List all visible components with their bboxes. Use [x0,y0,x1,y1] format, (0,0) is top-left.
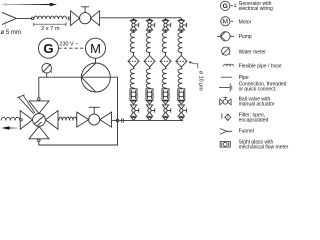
connection, threaded (manifold) [122,119,124,123]
ball valve (branch top) with manual actuator [178,20,186,30]
connection, threaded (top of branch valve) [131,18,135,20]
wire branch drop at x=133.5 [133,18,135,21]
svg-text:230 V ~: 230 V ~ [60,41,79,47]
flexible hose (lower) [130,69,134,89]
manifold (bottom collection pipe) [118,120,184,122]
sight glass with mechanical flow meter [146,89,153,100]
flexible hose (upper) [146,32,150,52]
ball valve (branch bottom) with manual actuator [162,105,170,116]
funnel (drain) [179,101,184,104]
wire [149,53,151,56]
wire [180,116,182,117]
generator G with electrical wiring [39,38,59,58]
funnel (drain) [147,101,152,104]
wire branch drop at x=149.5 [149,18,151,21]
node: 4-way valve top port [38,98,41,101]
connection, threaded (below branch valve) [147,30,151,32]
wire [180,67,182,69]
leader (dotted) for nozzle diameter [4,21,6,28]
svg-text:M: M [223,19,228,26]
ball valve (branch top) with manual actuator [130,20,138,30]
svg-text:Water meter: Water meter [239,49,267,55]
flexible hose (upper) [178,32,182,52]
flow direction arrow (top) [1,3,57,6]
ball valve (branch bottom) with manual actuator [146,105,154,116]
flow direction arrow (exhaust) [2,126,18,130]
connection to manifold [131,117,135,120]
svg-text:G: G [43,41,53,56]
wire [149,116,151,117]
funnel (drain) [163,101,168,104]
flexible hose 2 x 7 m [34,16,67,19]
wire: pump outlet pipe down to manifold and bypass [39,77,118,145]
legend: filter symbol [222,113,231,120]
ball valve V1 (main inlet) with manual actuator [71,7,100,26]
flexible hose (exhaust, left) [1,117,20,120]
legend: funnel symbol [220,129,232,135]
4-way plug valve with lever [17,95,58,139]
motor M [86,38,106,58]
svg-text:encapsulated: encapsulated [239,118,269,124]
filter, encapsulated (diamond) [176,56,187,68]
legend: flexible hose symbol [224,64,234,66]
svg-text:Flexible pipe / hose: Flexible pipe / hose [239,64,282,70]
wire [180,30,182,32]
wire: pump inlet pipe [39,77,82,99]
svg-text:or quick connect.: or quick connect. [239,87,277,93]
svg-text:ø 5 mm: ø 5 mm [1,30,21,36]
flexible hose (pump suction, middle) [59,117,77,120]
svg-text:G: G [223,3,228,10]
ball valve (branch top) with manual actuator [162,20,170,30]
legend: sight glass symbol [220,142,230,148]
svg-text:Motor: Motor [239,19,252,25]
svg-text:Pump: Pump [239,34,252,40]
wire branch drop at x=165.5 [165,18,167,21]
connection, threaded (below branch valve) [163,30,167,32]
node: 4-way valve left port [20,119,22,121]
flexible hose (lower) [146,69,150,89]
flexible hose (upper) [130,32,134,52]
connection, threaded (hose to valve) [68,16,70,20]
connection, threaded (top of branch valve) [147,18,151,20]
wire [165,67,167,69]
flexible hose (lower) [162,69,166,89]
legend: motor symbol [221,17,234,26]
wire: water meter tap [46,73,48,77]
filter, encapsulated (diamond) [128,56,139,68]
wire [165,30,167,32]
dimension line 2 x 7 m [34,22,66,26]
electrical wiring 230 V (dashed) [59,47,86,49]
node (hose connection) [31,17,33,19]
wire [165,116,167,117]
funnel (air inlet nozzle) [2,12,32,24]
wire: supply pipe to branch manifold [100,17,182,19]
wire [133,53,135,56]
filter, encapsulated (diamond) [144,56,155,68]
legend: pump symbol [217,32,234,41]
wire branch drop at x=181.3 [180,18,182,21]
ball valve (branch bottom) with manual actuator [178,105,186,116]
legend: connection symbol [219,83,232,91]
svg-text:Pipe: Pipe [239,75,249,81]
svg-text:M: M [90,41,101,56]
svg-text:Funnel: Funnel [239,129,254,135]
connection to manifold [179,117,183,120]
legend: water meter symbol [222,47,231,55]
node: junction pump outlet / manifold [116,119,119,122]
ball valve (branch top) with manual actuator [146,20,154,30]
flexible hose (lower) [178,69,182,89]
wire [133,30,135,32]
pump P1 [81,63,110,92]
node: 4-way valve bottom port [38,139,41,142]
connection to manifold [147,117,151,120]
sight glass with mechanical flow meter [162,89,169,100]
flexible hose (upper) [162,32,166,52]
wire [180,53,182,56]
wire [133,116,135,117]
wire [149,30,151,32]
connection, threaded (below branch valve) [131,30,135,32]
wire: motor shaft [95,58,97,63]
label leader for filter fineness [188,62,198,69]
legend: pipe symbol [221,76,232,78]
water meter [42,63,52,73]
svg-text:manual actuator: manual actuator [239,102,275,108]
sight glass with mechanical flow meter [178,89,185,100]
connection, threaded (top of branch valve) [179,18,183,20]
connection to manifold [163,117,167,120]
svg-text:mechanical flow meter: mechanical flow meter [239,145,289,151]
ball valve (branch bottom) with manual actuator [130,105,138,116]
ball valve V2 (bottom) with manual actuator [77,107,112,127]
sight glass with mechanical flow meter [130,89,137,100]
svg-text:ø 10 µm: ø 10 µm [197,71,203,91]
connection, threaded (below branch valve) [179,30,183,32]
funnel (drain) [131,101,136,104]
svg-text:electrical wiring: electrical wiring [239,6,273,12]
svg-text:2 x 7 m: 2 x 7 m [41,26,60,32]
connection, threaded (top of branch valve) [163,18,167,20]
legend: ball valve symbol [220,97,231,105]
wire [133,67,135,69]
wire [149,67,151,69]
wire: valve to junction [112,119,118,121]
legend: generator symbol [221,1,237,10]
wire [165,53,167,56]
filter, encapsulated (diamond) [160,56,171,68]
